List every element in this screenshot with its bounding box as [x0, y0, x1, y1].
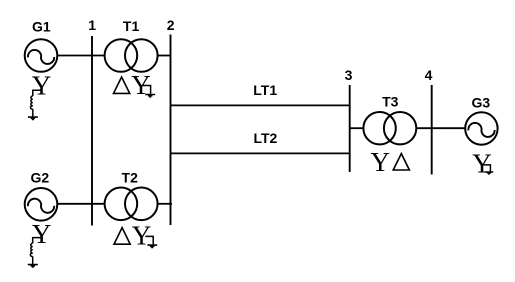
- svg-text:4: 4: [425, 67, 433, 83]
- svg-text:Y: Y: [370, 147, 390, 177]
- svg-text:LT1: LT1: [253, 82, 277, 98]
- svg-text:G2: G2: [31, 169, 50, 185]
- svg-text:3: 3: [345, 67, 353, 83]
- svg-text:Y: Y: [132, 221, 152, 251]
- svg-text:Y: Y: [131, 70, 151, 100]
- svg-text:T2: T2: [122, 169, 139, 185]
- svg-text:Y: Y: [32, 219, 52, 249]
- svg-text:Y: Y: [472, 148, 492, 178]
- svg-text:G3: G3: [471, 95, 490, 111]
- svg-text:Y: Y: [32, 70, 52, 100]
- svg-text:LT2: LT2: [253, 130, 277, 146]
- svg-text:T3: T3: [382, 94, 399, 110]
- svg-text:2: 2: [167, 17, 175, 33]
- svg-text:G1: G1: [32, 19, 51, 35]
- svg-text:T1: T1: [123, 18, 140, 34]
- svg-text:1: 1: [88, 17, 96, 33]
